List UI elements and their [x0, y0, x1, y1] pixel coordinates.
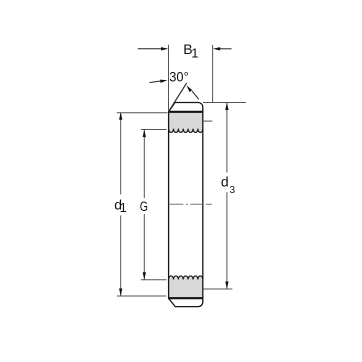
d1 dimension line	[120, 113, 122, 195]
G dimension: bottom extension line	[141, 279, 167, 281]
svg-text:G: G	[140, 199, 148, 215]
bottom thread wave edge	[169, 276, 203, 280]
d1 dimension: bottom extension line	[117, 295, 167, 297]
G top arrow	[143, 130, 146, 138]
nut outline	[169, 103, 203, 307]
svg-text:1: 1	[120, 200, 127, 215]
B1 dimension: left extension line	[168, 45, 170, 111]
G dimension line	[143, 130, 145, 198]
thick chamfer boundary line, top	[168, 111, 203, 113]
svg-text:d: d	[221, 174, 229, 190]
d3 dimension: bottom extension line	[203, 288, 232, 290]
d3 dimension: top extension line (collinear with top face)	[203, 102, 246, 104]
d3 top arrow	[225, 103, 228, 111]
d3 dimension line	[226, 103, 228, 173]
nut lower section fill (threaded ring, bottom half)	[169, 276, 203, 298]
svg-text:1: 1	[191, 46, 198, 61]
nut upper section fill (threaded ring, top half)	[169, 112, 203, 133]
top thread wave edge	[169, 129, 203, 133]
svg-text:3: 3	[230, 185, 236, 196]
30deg right arc arrow	[192, 91, 199, 99]
chamfer extension line to apex of 30deg angle	[169, 83, 187, 112]
G dimension: top extension line	[141, 129, 167, 131]
B1 dimension: right extension line	[212, 45, 214, 102]
short reference line right of upper thread section	[203, 120, 212, 122]
30deg left arc arrow	[150, 81, 162, 83]
G bottom arrow	[143, 272, 146, 280]
d1 dimension: top extension line	[117, 112, 168, 114]
B1 right arrow	[220, 48, 232, 50]
d3 bottom arrow	[225, 282, 228, 290]
d1 top arrow	[119, 112, 122, 120]
B1 left arrow	[138, 48, 162, 50]
thick chamfer boundary line, bottom	[168, 297, 203, 299]
svg-text:30°: 30°	[169, 69, 188, 85]
centerline (dash-dot axis)	[169, 203, 212, 205]
d1 bottom arrow	[119, 289, 122, 297]
